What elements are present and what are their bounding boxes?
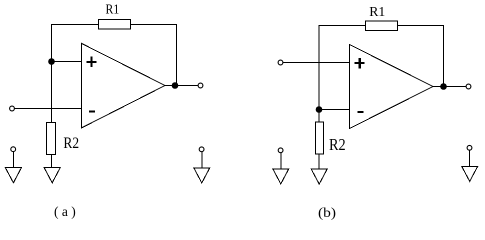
svg-text:): ): [71, 204, 76, 219]
svg-text:R2: R2: [329, 135, 346, 154]
svg-text:(: (: [54, 204, 59, 219]
svg-text:R1: R1: [106, 3, 120, 18]
svg-text:R1: R1: [369, 5, 385, 20]
svg-text:(b): (b): [318, 206, 336, 221]
svg-text:R2: R2: [63, 135, 79, 152]
svg-text:a: a: [62, 204, 68, 219]
